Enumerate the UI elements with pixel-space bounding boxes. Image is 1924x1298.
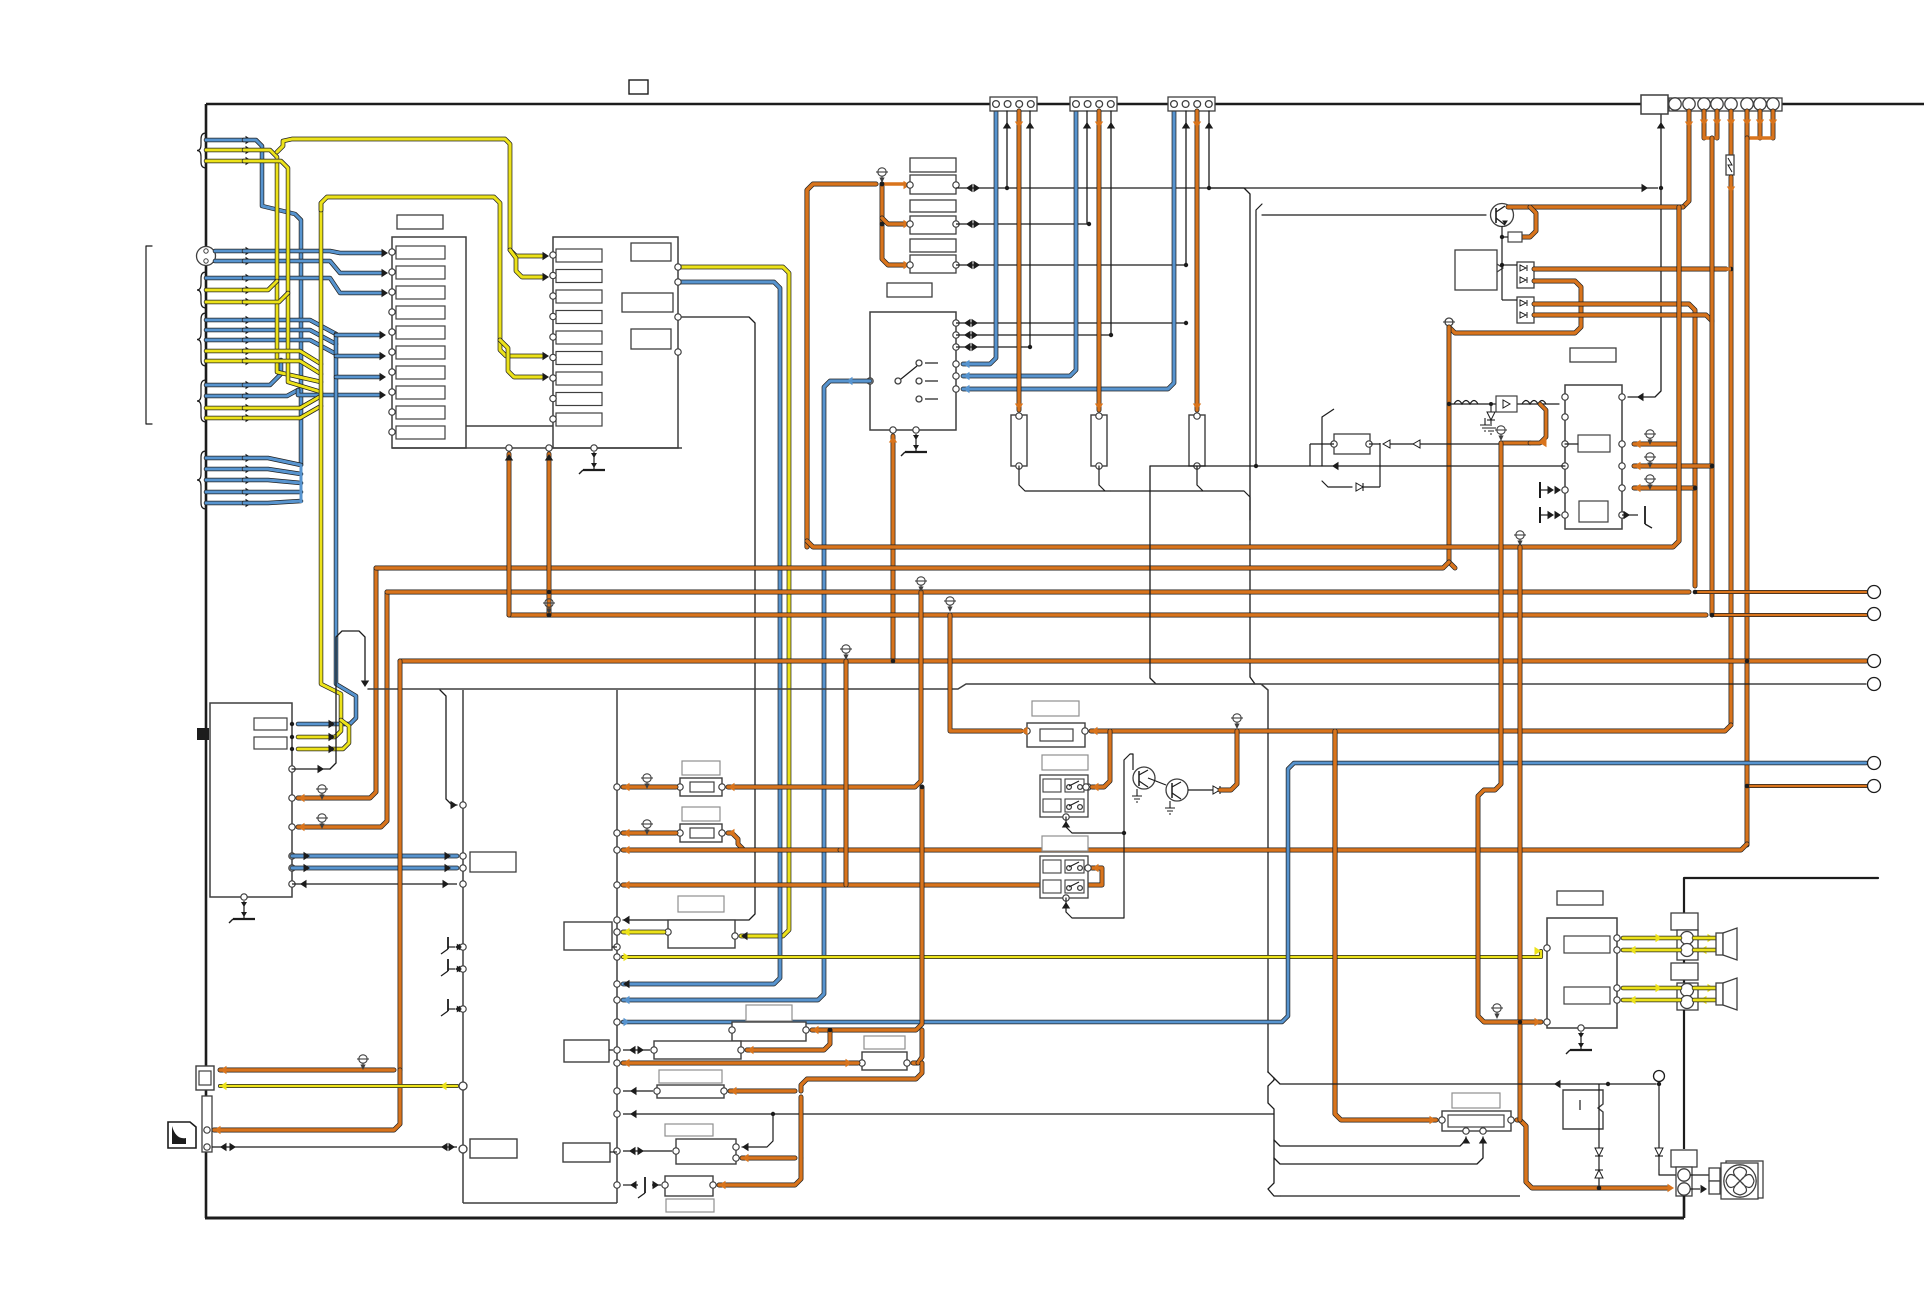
page frame top border	[206, 103, 1924, 106]
orange riser into switch block bottom	[891, 436, 896, 661]
pack2 orange rows	[1534, 304, 1695, 586]
block B inner bus column x617	[616, 690, 618, 1203]
pin box R1	[556, 249, 602, 262]
relay9 title	[666, 1199, 714, 1212]
aux connector box	[196, 1066, 214, 1090]
switch unit1 feed from x1106	[1092, 731, 1110, 787]
orange riser from diode up to row727	[1220, 731, 1237, 790]
speaker conn 1	[1671, 913, 1698, 930]
connector circle on bus	[197, 247, 216, 266]
black row 1196	[1280, 1195, 1520, 1197]
connector drop wires C1	[1006, 111, 1008, 188]
transistor Q1	[1491, 204, 1514, 227]
orange row 592	[387, 590, 1689, 595]
inner boxes right column	[631, 243, 671, 261]
stack box4	[910, 216, 956, 234]
title box above switch block	[887, 283, 932, 297]
pin box R2	[556, 270, 602, 283]
group D blues merge into vertical x336	[244, 360, 281, 385]
fan relay box	[1442, 1111, 1511, 1131]
switch block rows black	[956, 322, 1186, 324]
fuel sender box left	[564, 1040, 609, 1062]
relay9	[665, 1176, 713, 1196]
speaker connector chain vertical	[1683, 878, 1685, 930]
yellow speaker wires 1	[1623, 936, 1680, 941]
blue from switch to lower bus	[623, 381, 870, 1000]
T sensor pins on block B left edge	[460, 944, 466, 950]
group A yellows down verticals x277/x288	[244, 150, 321, 382]
block B left edge	[462, 690, 464, 1203]
orange vertical x1448 down to row568	[1449, 327, 1455, 568]
orange from relay box right to fan	[1517, 1120, 1668, 1188]
resistor	[1091, 415, 1107, 466]
page ref box	[629, 80, 648, 94]
blue long row 1022	[614, 1019, 620, 1025]
I box (igniter)	[1563, 1090, 1603, 1129]
pin box L4	[396, 306, 445, 319]
pin box L5	[396, 326, 445, 339]
rows from stack boxes to connector drops	[956, 187, 1658, 189]
gauge ground	[229, 901, 255, 923]
yellow loop 1 top	[277, 139, 542, 256]
orange into gauge pin 798 (from row568 drop)	[298, 568, 376, 798]
regulator bottom-right ground	[1622, 514, 1638, 516]
Q1 orange collector row	[1508, 205, 1683, 210]
relay6	[862, 1052, 907, 1070]
zener to ground	[1490, 404, 1492, 412]
pin box R8	[556, 393, 602, 406]
switch unit 2 title	[1042, 836, 1088, 851]
connector drop wires C2	[1086, 111, 1088, 224]
group E blues merge up into vertical	[244, 458, 301, 465]
blue stubs into blockL pins	[336, 333, 380, 338]
blue into blockL pin 395	[298, 390, 380, 395]
orange risers from meter block bottom	[507, 454, 512, 615]
pin box R3	[556, 290, 602, 303]
pin box L9	[396, 406, 445, 419]
blue bundle vertical x336 to gauge	[298, 334, 356, 724]
regulator inner box1	[1578, 435, 1610, 452]
relay3	[668, 920, 735, 948]
relay3 title	[678, 896, 724, 912]
diode to orange riser	[1188, 789, 1213, 791]
AC amplifier	[1547, 918, 1617, 1028]
yellow into amp	[1535, 947, 1542, 955]
yellow long row 955	[614, 954, 620, 960]
orange long vertical x1520 from row547	[1518, 547, 1523, 1120]
pin box R9	[556, 413, 602, 426]
block R output yellow	[678, 267, 789, 936]
AC amp title	[1557, 891, 1603, 905]
relay4 title	[746, 1005, 792, 1021]
group B blues into block L pins	[244, 251, 382, 253]
amp ground	[1566, 1032, 1592, 1054]
filter title	[1032, 701, 1079, 716]
switch unit 2	[1040, 856, 1088, 898]
regulator inner box2	[1579, 501, 1608, 522]
bundle row y215 corner V1256	[1256, 204, 1262, 215]
block B bottom edge	[463, 1202, 617, 1204]
orange feeds relay4/5 from x922	[812, 787, 922, 1030]
orange sub riser x882 with branches to boxes	[882, 184, 904, 265]
relay9 + ground	[614, 1182, 620, 1188]
orange row 850 long	[623, 848, 840, 853]
block: main ECU outline top	[368, 684, 1261, 689]
orange vertical x846	[844, 661, 849, 885]
orange branch to AC amp	[1478, 443, 1541, 1022]
diode pack 2	[1517, 297, 1534, 323]
black row 1114	[614, 1111, 620, 1117]
orange row 885	[614, 882, 620, 888]
diode box	[1496, 396, 1517, 412]
gauge pin box 1	[254, 718, 287, 730]
rows to fan relay box bottom pins	[1274, 1137, 1466, 1146]
pin box L2	[396, 266, 445, 279]
orange row 786 from v1747 to terminal	[1747, 784, 1866, 788]
pin box R5	[556, 331, 602, 344]
stack box6	[910, 255, 956, 273]
orange row 615	[509, 613, 1706, 618]
chassis ground small	[1445, 318, 1453, 326]
fuse1 title	[682, 761, 720, 775]
fan connector	[1671, 1150, 1697, 1167]
relay7	[657, 1085, 724, 1098]
orange vertical x1335 from row727 down to relay box	[1335, 731, 1436, 1120]
camera/monitor icon	[168, 1122, 196, 1148]
blue row 1000 pin	[614, 997, 620, 1003]
top connector	[1168, 97, 1215, 111]
pin box L8	[396, 386, 445, 399]
T symbols into regulator left	[1539, 482, 1541, 498]
orange into gauge pin 827 (from row592 drop)	[298, 592, 387, 827]
black row 1147	[212, 1146, 457, 1148]
block: gauge assembly	[210, 703, 292, 897]
stack box5	[910, 239, 956, 252]
block bottom rail	[392, 447, 682, 449]
gauge pin box 2	[254, 737, 287, 749]
main orange riser x807	[807, 184, 876, 547]
diode pack 1	[1517, 262, 1534, 288]
title box regulator	[1570, 348, 1616, 362]
left harness wire taps with arrows	[197, 133, 206, 168]
top right connector strip	[1669, 98, 1782, 111]
feedback rows	[1150, 465, 1565, 467]
gauge black wire up to center block	[292, 768, 330, 770]
orange jog into regulator area	[1501, 441, 1530, 446]
block: voltage regulator	[1565, 385, 1622, 529]
fuse1	[680, 778, 722, 796]
switch contacts	[895, 378, 901, 384]
fusible link on c5	[1726, 155, 1734, 175]
blue pair into block B + box	[460, 853, 466, 859]
pin box L3	[396, 286, 445, 299]
fuse2 title	[682, 807, 720, 821]
sensor box left of column (speed sensor)	[564, 922, 612, 950]
pin box L1	[396, 246, 445, 259]
orange riser x801 upper connection	[801, 1063, 922, 1091]
pin box R6	[556, 352, 602, 365]
orange row 661	[400, 659, 1866, 664]
relay8 title	[665, 1124, 713, 1136]
pin box R7	[556, 372, 602, 385]
wire bundle: group A blue down	[244, 140, 301, 465]
filter	[1027, 723, 1085, 747]
box at block B left bottom	[470, 1139, 517, 1158]
group B yellows merge into verticals	[244, 281, 277, 290]
resistor R-q1	[1508, 232, 1522, 242]
switch unit bottoms to black riser	[1066, 817, 1124, 833]
terminal circle	[1654, 1071, 1665, 1082]
stack box2	[910, 175, 956, 194]
resistor bottom bundle to right	[1019, 466, 1110, 491]
blue row 984 pin	[614, 981, 620, 987]
group C/D yellows merge into vertical x321	[244, 351, 321, 364]
regulator pin rows right side orange	[1634, 442, 1679, 447]
switch unit 1	[1040, 775, 1088, 817]
orange row 568	[376, 562, 1449, 568]
blue pair gauge to center block	[292, 854, 457, 859]
speaker 2 icon	[1716, 983, 1723, 1005]
yellow row 1085	[220, 1084, 457, 1088]
stack box1	[910, 158, 956, 172]
yellow speaker wires 2	[1623, 986, 1680, 991]
ground below blocks	[579, 452, 605, 474]
sensor box left of relay8	[563, 1143, 610, 1162]
black row 1085	[1274, 1078, 1656, 1084]
diode chain 2	[1658, 1084, 1660, 1148]
fan icon	[1690, 1174, 1709, 1176]
block L title box	[397, 215, 443, 229]
resistor	[1189, 415, 1205, 466]
block: combination meter connector R	[553, 237, 678, 448]
orange row 731 from filter to V1729	[1091, 725, 1731, 731]
V1661 from top box down to regulator pin	[1628, 114, 1661, 397]
orange row 547	[807, 207, 1679, 547]
yellow bundle vertical x321 to gauge pins	[298, 203, 341, 737]
orange row 1070	[220, 1068, 394, 1073]
relay5	[654, 1041, 741, 1059]
noise suppressor box	[1455, 250, 1497, 290]
condenser fan motor	[1726, 1161, 1763, 1198]
transistor Q2	[1133, 767, 1155, 789]
pack1 orange rows	[1534, 267, 1726, 272]
small box w pins feedback	[1334, 434, 1370, 454]
fan relay title	[1452, 1093, 1500, 1108]
block R output black	[623, 317, 755, 920]
yellow loop 2 inner	[321, 197, 542, 356]
top connector	[1070, 97, 1117, 111]
big bracket left	[146, 246, 152, 424]
pin box R4	[556, 311, 602, 324]
relay4	[732, 1022, 806, 1041]
block: ignition switch	[870, 312, 956, 430]
black row 683 to terminal	[1150, 466, 1866, 684]
top connector	[990, 97, 1037, 111]
block B right edge chamfers	[1268, 1072, 1280, 1196]
relay6 title	[864, 1036, 905, 1049]
top right relay box	[1641, 95, 1668, 114]
orange drop from row612 x399	[398, 661, 403, 1070]
chassis ground above regulator	[1480, 425, 1490, 431]
fuse2	[680, 824, 722, 842]
regulator feed circuit: coil diode coil	[1449, 403, 1559, 405]
switch block rows blue from connectors	[963, 111, 996, 364]
transistor Q3	[1166, 779, 1188, 801]
black row 920	[614, 917, 620, 923]
block: combination meter connector L	[392, 237, 466, 448]
drop to relay8	[742, 1114, 773, 1147]
chamfer entry wire into block B	[440, 690, 457, 805]
pin box L7	[396, 366, 445, 379]
camera connector strip	[202, 1096, 212, 1152]
page frame left border / main bus	[205, 104, 208, 1218]
speaker 1 icon	[1716, 933, 1723, 955]
orange stubs from strip circles	[1683, 111, 1689, 207]
group C blues merge into vertical x336	[244, 320, 336, 334]
battery connector mark on bus	[197, 728, 209, 740]
page frame bottom border	[205, 1217, 1684, 1220]
black gauge to center block	[292, 883, 457, 885]
pin box L10	[396, 426, 445, 439]
relay7 title	[659, 1070, 722, 1083]
orange feed relay6 from x846?	[913, 1061, 918, 1066]
resistor	[1011, 415, 1027, 466]
stack box3	[910, 200, 956, 212]
pin box L6	[396, 346, 445, 359]
Q1 emitter resistor	[1522, 207, 1536, 237]
relay8	[676, 1139, 736, 1164]
switch unit 1 title	[1042, 755, 1088, 770]
switch ground	[901, 434, 927, 456]
diode chain 1	[1598, 1084, 1600, 1148]
orange from row615 down into filter	[950, 615, 1021, 731]
bundle row y188 corner down V1250	[1209, 188, 1255, 684]
orange from OH3 drop to fuse1	[728, 592, 921, 787]
regulator left pin stubs	[1565, 443, 1578, 445]
block R output blue	[623, 282, 780, 984]
connector drop wires C3	[1185, 111, 1187, 265]
speaker conn 2	[1671, 963, 1698, 980]
